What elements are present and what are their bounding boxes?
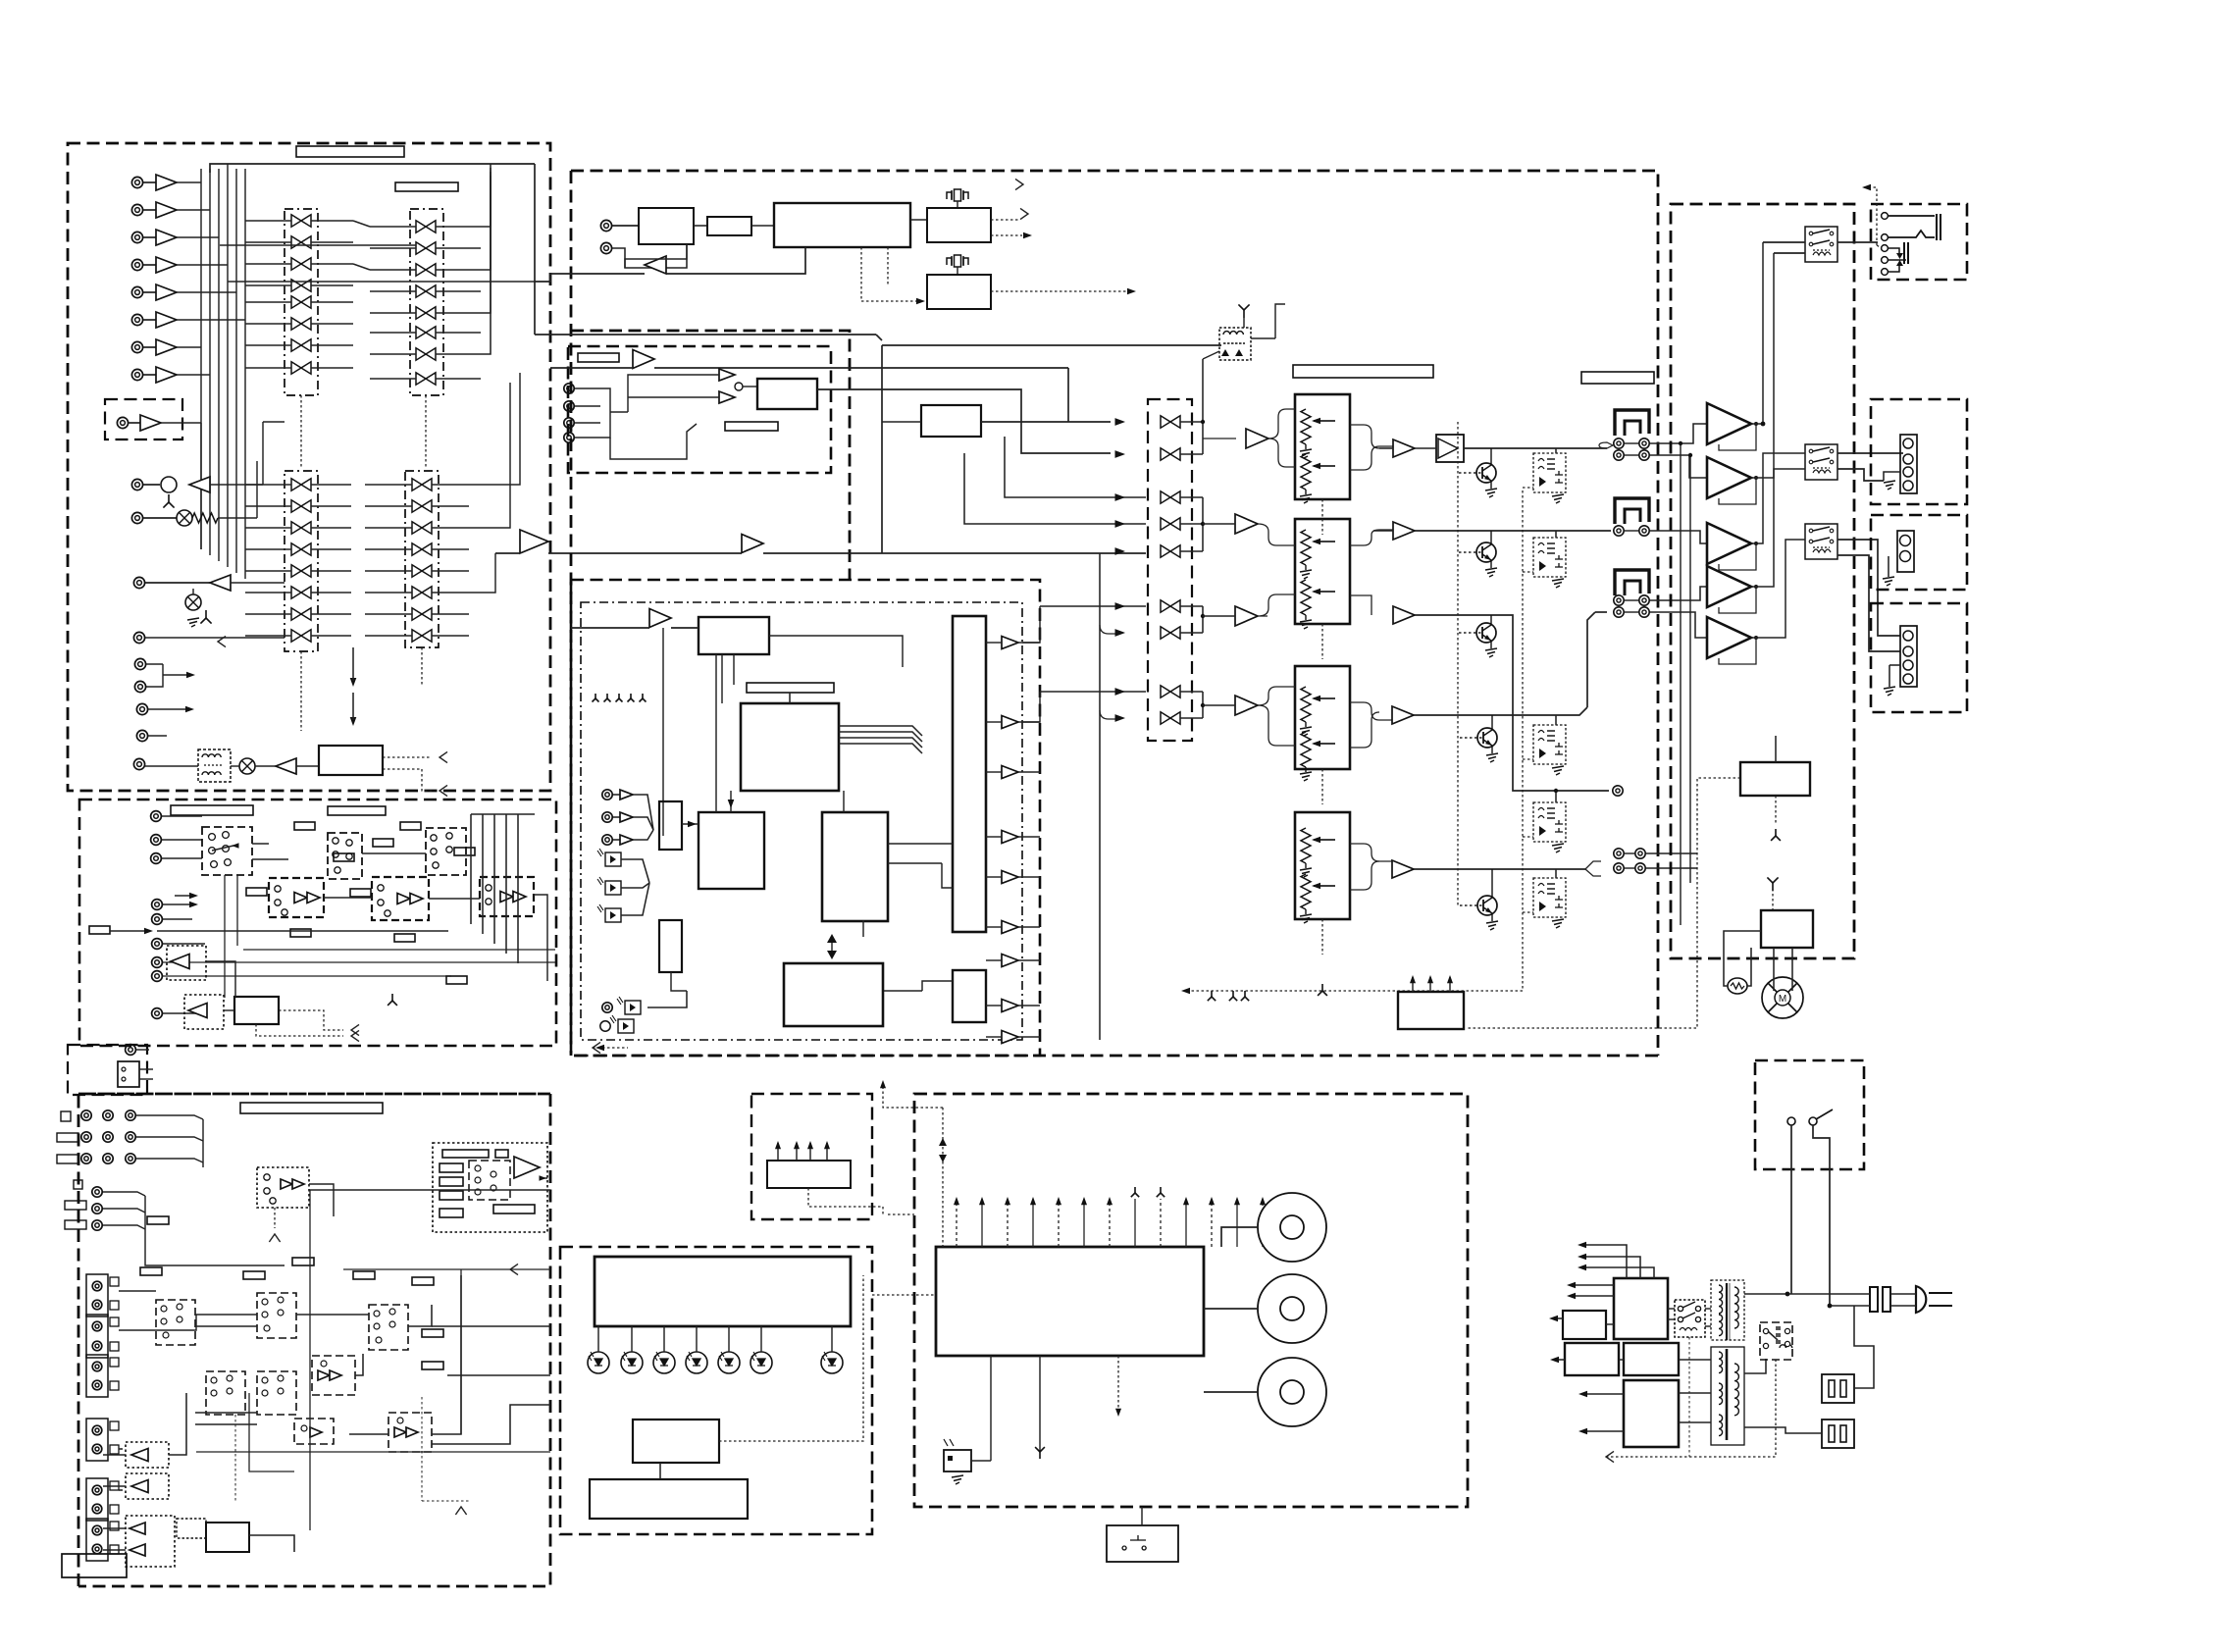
ac inlet box	[68, 1045, 147, 1095]
phones tip wire	[1889, 215, 1935, 217]
selector switch 8	[1161, 686, 1180, 697]
matrix B1 switch 6	[291, 587, 311, 598]
video bottom label	[62, 1554, 127, 1577]
svg-text:M: M	[1779, 994, 1786, 1005]
transformer T2	[1719, 1352, 1723, 1373]
dsp mux rect2	[659, 920, 682, 972]
dir chip	[757, 379, 817, 409]
buffer amp input 6	[156, 312, 177, 328]
phones dotted sense	[1876, 204, 1878, 245]
input jack J8	[131, 369, 142, 380]
buffer amp input 1	[156, 175, 177, 190]
mcu link to display	[863, 1214, 883, 1275]
switch matrix B2 box	[405, 471, 439, 647]
matrix B2 switch 6	[412, 587, 432, 598]
led row	[588, 1352, 609, 1373]
post amp 5	[1392, 860, 1414, 878]
dac block	[953, 616, 986, 932]
antenna Y	[218, 636, 226, 646]
tape sw box3	[426, 828, 466, 875]
psu rect small	[1563, 1311, 1606, 1339]
osd amp	[514, 1157, 540, 1178]
dsp inner box	[581, 602, 1022, 1040]
toroidal coils	[1258, 1274, 1326, 1343]
speaker box C	[1871, 603, 1967, 712]
switch wires	[1790, 1125, 1792, 1294]
antenna above transformer	[1238, 304, 1249, 318]
dac buffers	[1002, 637, 1018, 649]
input jack J4	[131, 259, 142, 270]
mcu up arrows	[956, 1199, 957, 1247]
volume pot 2a	[1301, 530, 1311, 565]
switch matrix A1 box	[285, 209, 318, 395]
tape bus verticals	[470, 814, 472, 924]
mute transistor Q3	[1476, 623, 1496, 643]
volume block 2	[1295, 519, 1350, 624]
digital interface box	[568, 346, 831, 473]
tuner pll block	[927, 208, 991, 242]
matrix B1 switch 7	[291, 608, 311, 620]
display driver block	[633, 1420, 719, 1463]
tuner decoder block	[774, 203, 910, 247]
psu relay 2	[1760, 1322, 1792, 1360]
mute transistor Q2	[1476, 542, 1496, 562]
tape dotted monitor box2	[184, 995, 224, 1029]
ir sensor	[944, 1450, 971, 1471]
optical rx modules	[605, 852, 621, 866]
selector matrix box	[1148, 399, 1192, 741]
fuse block 1	[1822, 1374, 1854, 1403]
tape sw box1	[202, 827, 252, 875]
container bottom arrow	[1472, 1055, 1658, 1057]
display section box	[560, 1247, 872, 1534]
volume pot 3a	[1301, 687, 1311, 722]
video monitor tri boxes	[126, 1442, 169, 1468]
stereo out dotted arrow	[991, 290, 1128, 292]
tuner stereo block	[927, 275, 991, 309]
matrix B output wires	[469, 373, 520, 485]
mute relay RY5	[1533, 878, 1566, 917]
power amp 5	[1707, 617, 1751, 658]
line filter	[198, 749, 231, 782]
matrix B1 switch 2	[291, 500, 311, 512]
phones ring wire	[1889, 231, 1935, 237]
tape arrow stubs	[175, 895, 192, 897]
matrix B2 switch 3	[412, 522, 432, 534]
ac line filter caps	[1870, 1287, 1878, 1312]
protection block	[1740, 762, 1810, 796]
matrix A1 switch 5	[291, 296, 311, 308]
matrix A2 switch 6	[416, 327, 436, 338]
power detect block	[1398, 992, 1464, 1029]
xtal X2	[947, 255, 968, 267]
video lower jacks	[86, 1274, 108, 1316]
video small labels	[140, 1267, 162, 1275]
dotted ctrl into stereo block	[861, 247, 920, 301]
mcu vertical dotted	[942, 1108, 944, 1247]
tuner outputs dotted	[991, 219, 1020, 221]
tuner antenna jack1	[600, 220, 611, 231]
selector switch 6	[1161, 600, 1180, 612]
dsp mux rect1	[659, 801, 682, 850]
fork symbols	[1208, 991, 1216, 1001]
fan wires	[1773, 948, 1775, 991]
input jack J3	[131, 232, 142, 242]
vol input buffer 3	[1235, 606, 1258, 626]
power amp box	[1671, 204, 1854, 958]
selector input arrows and wires	[1067, 368, 1069, 422]
vol input buffer 2	[1235, 514, 1258, 534]
protection dotted route	[1466, 778, 1740, 1028]
fl display	[595, 1257, 851, 1326]
coax jack2	[600, 1021, 610, 1031]
label bar dsp	[747, 683, 834, 693]
input bus wires	[210, 164, 535, 173]
phones dotted arrow	[1864, 187, 1877, 201]
video long wires	[119, 1290, 156, 1292]
jack ctrl2	[134, 681, 145, 692]
video out tri boxes	[126, 1516, 175, 1567]
psu rect row2a	[1565, 1343, 1619, 1375]
fuse wires	[1854, 1306, 1874, 1388]
rec out jack	[133, 577, 144, 588]
video sw dotted box	[257, 1167, 309, 1208]
matrix A1 switch 3	[291, 258, 311, 270]
sub out jack	[1613, 786, 1623, 796]
matrix A2 switch 3	[416, 264, 436, 276]
buffer amp input 3	[156, 230, 177, 245]
rec out buffer	[210, 575, 231, 591]
matrix dotted ctrl lines	[300, 395, 302, 469]
volume pot 4b	[1301, 874, 1311, 909]
dsp to dac wires	[888, 843, 953, 845]
tape amp box1	[269, 878, 324, 917]
video label bar	[240, 1103, 383, 1113]
tape ctl block	[234, 997, 279, 1024]
osd block dotted box	[433, 1143, 547, 1232]
thermistor	[1728, 978, 1747, 994]
matrix B2 switch 7	[412, 608, 432, 620]
label bar center2	[1581, 372, 1654, 384]
tuner antenna jack2	[600, 242, 611, 253]
speaker A terminals	[1900, 435, 1917, 493]
analog direct vertical	[1099, 553, 1101, 1040]
matrix bus wire y287	[228, 281, 535, 283]
input jack J7	[131, 341, 142, 352]
dsp link dotted	[872, 1207, 888, 1209]
matrix A1 switch 2	[291, 236, 311, 248]
matrix A1 switch 8	[291, 362, 311, 374]
input jack J6	[131, 314, 142, 325]
center container box	[571, 171, 1658, 1056]
matrix B1 switch 4	[291, 543, 311, 555]
transformer T1	[1719, 1285, 1723, 1314]
volume pot 1b	[1301, 454, 1311, 490]
phono jack	[117, 417, 128, 428]
jack ctrl1	[134, 658, 145, 669]
dsp block D	[784, 963, 883, 1026]
matrix A1 switch 4	[291, 280, 311, 291]
tape sw box2	[328, 833, 362, 879]
tape dotted monitor box1	[167, 946, 206, 980]
digital pulse transformer	[1219, 328, 1251, 360]
tape vertical drops	[224, 875, 226, 998]
ac jack	[126, 1045, 136, 1056]
tape amp box2	[372, 877, 429, 920]
power amp 1	[1707, 403, 1751, 444]
amp rail vertical 1	[1680, 443, 1682, 925]
tuner front end block	[639, 208, 694, 244]
dsp block C	[822, 812, 888, 921]
diode block	[1436, 435, 1464, 462]
xtal X1	[947, 189, 968, 201]
phones switch contacts	[1889, 248, 1899, 253]
matrix A wires	[481, 164, 491, 227]
matrix A2 switch 8	[416, 373, 436, 385]
selector switch 4	[1161, 518, 1180, 530]
power switch	[1787, 1117, 1795, 1125]
buffer amp input 4	[156, 257, 177, 273]
jack aux	[131, 512, 142, 523]
switch matrix B1 box	[285, 471, 318, 651]
mute transistor Q1	[1476, 463, 1496, 483]
selector switch 9	[1161, 712, 1180, 724]
input jack J1	[131, 177, 142, 187]
psu big rect	[1624, 1380, 1679, 1447]
mic mix circle	[161, 477, 177, 492]
dir label bar	[578, 353, 619, 362]
selector feed wires	[1005, 437, 1146, 497]
mcu section box	[914, 1094, 1468, 1507]
phono small box	[105, 399, 182, 439]
fan ctrl block	[1761, 910, 1813, 948]
preout jacks 3	[1614, 595, 1624, 605]
phono buffer	[140, 415, 161, 431]
dir gate2	[719, 391, 735, 403]
filter circle	[239, 758, 255, 774]
tape monitor box	[79, 800, 556, 1046]
mcu down lines	[1039, 1356, 1041, 1452]
thermistor wires	[1724, 931, 1761, 986]
container bottom edge	[571, 1055, 1658, 1058]
video section box	[78, 1094, 550, 1586]
volume out braces	[1350, 425, 1379, 448]
speaker box A	[1871, 399, 1967, 504]
jack ctrl4	[136, 730, 147, 741]
matrix A2 switch 1	[416, 221, 436, 232]
dir output wire	[817, 389, 1111, 453]
phones box	[1871, 204, 1967, 280]
video lower sw boxes	[156, 1300, 195, 1345]
video lower sw boxes 2	[206, 1371, 245, 1415]
mute relay RY3	[1533, 725, 1566, 764]
matrix A2 switch 2	[416, 242, 436, 254]
output buffer to DSP	[520, 530, 548, 553]
tape long wires right	[163, 961, 555, 963]
dotted exit arrow	[593, 1047, 628, 1049]
jack ctrl3	[136, 703, 147, 714]
ac wires	[1744, 1293, 1870, 1295]
ac connector	[118, 1061, 139, 1087]
container left edge	[570, 171, 573, 1056]
coax jack	[602, 1003, 612, 1012]
label bar center1	[1293, 365, 1433, 378]
matrix A2 switch 7	[416, 348, 436, 360]
speaker B terminals	[1897, 531, 1914, 572]
volume pot 1a	[1301, 409, 1311, 444]
ac plug	[1916, 1286, 1926, 1313]
Y symbols row	[593, 694, 599, 702]
pre-main link wires	[1191, 421, 1203, 423]
selector merge wires	[1202, 422, 1204, 454]
ac outlet jack	[133, 758, 144, 769]
matrix B1 switch 8	[291, 630, 311, 642]
amp output wiring	[1751, 242, 1763, 424]
optical input jacks	[602, 790, 612, 800]
amp rail vertical 2	[1689, 455, 1691, 883]
volume pot 4a	[1301, 828, 1311, 863]
dsp wiring	[721, 654, 723, 703]
preout jacks 2	[1614, 526, 1624, 536]
matrix A2 switch 4	[416, 285, 436, 297]
volume pot 2b	[1301, 580, 1311, 615]
video block B	[206, 1523, 249, 1552]
matrix B1 switch 3	[291, 522, 311, 534]
power buffer	[276, 758, 296, 774]
label bar	[395, 182, 458, 191]
matrix bus wire y250	[220, 244, 416, 246]
preout bracket 1	[1615, 410, 1649, 436]
tape small labels	[294, 822, 315, 830]
power switch box	[1755, 1060, 1864, 1169]
video ctrl dotted	[234, 1415, 236, 1501]
mic jack	[131, 479, 142, 490]
buffer amp input 8	[156, 367, 177, 383]
dir jacks	[564, 384, 574, 393]
power amp 4	[1707, 566, 1751, 607]
selector switch 7	[1161, 627, 1180, 639]
tape label bar1	[171, 805, 253, 815]
matrix A1 switch 1	[291, 215, 311, 227]
video s blocks	[294, 1419, 334, 1444]
speaker C terminals	[1900, 626, 1917, 687]
volume dotted ctrl	[1321, 499, 1323, 535]
mcu chip	[936, 1247, 1204, 1356]
ad converter block	[921, 405, 981, 437]
dac small block	[953, 970, 986, 1022]
dir label bar2	[725, 422, 778, 431]
volume pot 3b	[1301, 732, 1311, 767]
matrix B2 switch 5	[412, 565, 432, 577]
psu rect row2b	[1624, 1343, 1679, 1375]
input jack J2	[131, 204, 142, 215]
vol input buffer 1	[1246, 429, 1268, 448]
record selector line	[882, 344, 1221, 346]
matrix B1 switch 1	[291, 479, 311, 490]
selector switch 2	[1161, 448, 1180, 460]
speaker box B	[1871, 515, 1967, 590]
matrix B2 switch 4	[412, 543, 432, 555]
switch matrix A2 box	[410, 209, 443, 395]
post amp 2	[1393, 522, 1415, 540]
mute relay RY4	[1533, 802, 1566, 842]
matrix A1 switch 7	[291, 339, 311, 351]
power amp 3	[1707, 523, 1751, 564]
selector switch 1	[1161, 416, 1180, 428]
matrix B2 switch 2	[412, 500, 432, 512]
mic amp	[189, 477, 210, 492]
speaker relay B	[1805, 444, 1837, 480]
fan motor	[1762, 977, 1803, 1018]
video lower amp box	[312, 1356, 355, 1395]
label bar function switch	[296, 146, 404, 157]
dsp block A	[699, 617, 769, 654]
power amp 2	[1707, 457, 1751, 498]
video extra bus	[309, 1190, 311, 1530]
attenuator circle	[177, 510, 192, 526]
matrix B down arrows	[350, 678, 357, 687]
mute relay RY2	[1533, 538, 1566, 577]
volume block 3	[1295, 666, 1350, 769]
matrix B2 switch 1	[412, 479, 432, 490]
dir input buffer	[633, 350, 654, 369]
dsp outer box	[571, 580, 1040, 1056]
tuner feedback amp	[645, 256, 666, 274]
tuner box edges	[571, 331, 850, 580]
tape amp box3	[480, 877, 534, 916]
preout jacks 1	[1614, 439, 1624, 448]
tape wires	[252, 843, 269, 845]
buffer amp input 5	[156, 284, 177, 300]
matrix A2 switch 5	[416, 307, 436, 319]
speaker relay C	[1805, 524, 1837, 559]
fuse block 2	[1822, 1420, 1854, 1448]
level circle	[185, 594, 201, 610]
volume brace wires	[1268, 409, 1295, 439]
speaker relay A	[1805, 227, 1837, 262]
psu left arrows	[1581, 1245, 1627, 1278]
display block2	[590, 1479, 748, 1519]
matrix A1 switch 6	[291, 318, 311, 330]
dsp block B	[741, 703, 839, 791]
phones contacts	[1882, 213, 1889, 220]
post amp 3	[1393, 606, 1415, 624]
buffer amp input 7	[156, 339, 177, 355]
video jack group2	[92, 1187, 102, 1197]
regulator box	[751, 1094, 872, 1219]
resistor R1	[192, 513, 218, 523]
buffer amp input 2	[156, 202, 177, 218]
dsp sram	[699, 812, 764, 889]
bus output box right edge	[1657, 171, 1659, 1056]
selector switch 5	[1161, 545, 1180, 557]
surround preout jacks	[1614, 849, 1624, 858]
video in jack grid	[81, 1110, 91, 1120]
tuner IF block	[707, 217, 751, 235]
jack tape	[133, 632, 144, 643]
dir gate1	[719, 369, 735, 381]
video lower amp box2	[388, 1413, 432, 1452]
psu dotted ctrl	[1606, 1360, 1776, 1457]
tape label bar2	[328, 806, 386, 815]
input to selector bus	[535, 334, 876, 336]
input section box	[68, 143, 550, 791]
volume block 4	[1295, 812, 1350, 919]
key block	[1107, 1525, 1178, 1562]
mute ctrl dotted verticals	[1457, 422, 1459, 905]
mute relay RY1	[1533, 453, 1566, 492]
amp input wires	[1683, 424, 1707, 443]
